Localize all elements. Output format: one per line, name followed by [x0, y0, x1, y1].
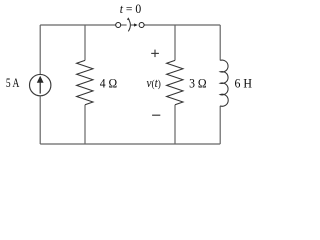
current source arrow shaft [39, 82, 41, 94]
svg-text:v(t): v(t) [147, 75, 162, 90]
svg-text:3 Ω: 3 Ω [189, 76, 207, 91]
wire inductor branch lower [219, 106, 221, 144]
svg-text:6 H: 6 H [235, 76, 253, 91]
switch wire stub [121, 24, 127, 26]
minus sign [152, 114, 160, 116]
svg-text:t = 0: t = 0 [120, 1, 142, 16]
wire 3-ohm branch lower [174, 105, 176, 144]
switch terminal circle left [116, 23, 121, 28]
switch terminal circle right [139, 23, 144, 28]
switch blade arc [128, 19, 130, 32]
current source I1 circle [30, 74, 51, 95]
plus sign [151, 50, 159, 58]
wire left branch lower [39, 96, 41, 144]
switch arc arrowhead [127, 17, 130, 20]
current source arrowhead [37, 76, 44, 83]
svg-text:4 Ω: 4 Ω [100, 76, 117, 91]
resistor R2 3-ohm zigzag [167, 60, 183, 104]
wire top segment left of switch [40, 24, 115, 26]
svg-text:5 A: 5 A [6, 75, 20, 90]
wire 3-ohm branch upper [174, 25, 176, 60]
wire inductor branch upper [219, 25, 221, 60]
inductor L1 bumps [220, 60, 228, 106]
resistor R1 4-ohm zigzag [77, 60, 93, 104]
wire 4-ohm branch upper [84, 25, 86, 60]
switch motion wire [131, 24, 135, 26]
switch motion arrowhead [134, 23, 138, 26]
wire 4-ohm branch lower [84, 105, 86, 144]
wire bottom [40, 143, 220, 145]
wire top segment right of switch [144, 24, 220, 26]
wire left branch upper [39, 25, 41, 74]
